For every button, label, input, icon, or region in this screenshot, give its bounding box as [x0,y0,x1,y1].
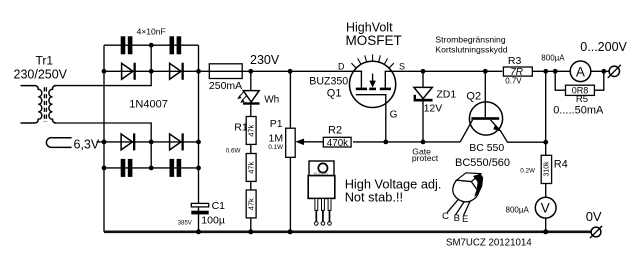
wire voltmeter to bus [545,218,547,232]
node 230V rail dots [248,69,292,74]
svg-text:4×10nF: 4×10nF [137,26,166,36]
svg-text:800µA: 800µA [506,205,530,214]
capacitor Cb (10nF) [170,36,175,54]
Q2 emitter wire to R4 column [501,131,546,142]
svg-text:R1: R1 [234,122,248,134]
svg-text:R4: R4 [554,159,568,171]
svg-text:1N4007: 1N4007 [129,99,168,111]
wire bridge mid column lower [150,142,152,168]
wire secondary bottom to bridge mid column [54,123,151,142]
svg-text:R2: R2 [328,125,342,137]
potentiometer P1 [286,128,296,157]
svg-text:100µ: 100µ [201,215,225,227]
wire right rail of bridge [198,45,200,203]
svg-text:Wh: Wh [264,95,279,106]
Q2 base lead diagonal [460,120,472,142]
wire bridge to fuse and main 230V rail [199,70,362,72]
Q1 internal drain stub [353,71,361,87]
svg-text:47k: 47k [246,198,255,210]
svg-text:0.1W: 0.1W [268,144,283,151]
svg-text:BC 550: BC 550 [469,142,504,154]
diode D1 1N4007 [122,63,133,79]
node dots gate net [383,140,425,145]
Q1 heat tab rays [351,54,393,67]
TO-220 legs [315,198,331,210]
svg-text:230V: 230V [250,53,280,67]
svg-text:SM7UCZ 20121014: SM7UCZ 20121014 [446,237,532,248]
transformer Tr1 primary winding [21,86,42,123]
wire source rail [392,70,502,72]
node dot emitter junction [543,140,548,145]
wire R1b-R1c [250,181,252,190]
TO-220 package tab [309,161,334,176]
svg-text:B: B [454,213,460,224]
svg-text:470k: 470k [327,138,348,149]
wire R1c to bus [250,218,252,232]
wire bridge mid column upper [150,45,152,71]
resistor R1a 47k [246,117,256,145]
wire LED branch [250,71,252,90]
svg-text:D: D [338,62,345,72]
P1 wiper arrow [295,139,304,146]
wire R3 to meter [533,70,571,72]
transformer Tr1 secondary winding [49,86,56,123]
svg-text:P1: P1 [270,118,283,130]
svg-text:250mA: 250mA [209,80,242,92]
svg-text:310k: 310k [544,161,551,177]
resistor R2 470k [323,137,351,147]
zener diode ZD1 [422,71,424,87]
fuse F1 250mA [209,64,242,79]
svg-text:C1: C1 [212,200,226,212]
capacitor C1 electrolytic [191,203,208,207]
capacitor Cd (10nF) [170,159,175,177]
TO-92 package side shade [473,174,483,197]
svg-text:47k: 47k [246,161,255,173]
LED Wh [243,91,259,102]
shunt R5 0R8 [555,71,565,90]
node dots bottom bus [196,229,548,234]
LED arrows [239,92,247,101]
diode D3 1N4007 [121,134,132,150]
svg-text:Strombegränsning: Strombegränsning [435,35,505,45]
TO-220 hole [318,163,327,172]
svg-text:Not stab.!!: Not stab.!! [345,189,403,204]
svg-text:Q2: Q2 [466,90,481,102]
svg-text:E: E [462,214,468,225]
wire lower diode row [104,141,199,143]
resistor R4 310k [541,155,551,183]
TO-92 package BC550 top face [457,173,481,182]
svg-text:6,3V: 6,3V [74,138,100,152]
svg-text:V: V [541,201,550,216]
node dots output rail [543,69,606,74]
wire gate net R2 to Q2 base [353,141,460,143]
wire meter to terminal [591,70,609,72]
svg-text:BC550/560: BC550/560 [455,157,510,169]
TO-220 body [308,176,335,199]
wire R4 column upper [545,71,547,155]
svg-text:Tr1: Tr1 [36,54,54,68]
svg-text:C: C [442,211,449,222]
svg-text:0...200V: 0...200V [580,40,627,54]
svg-text:0.....50mA: 0.....50mA [553,104,604,116]
transformer core [43,87,45,121]
voltmeter V [535,197,556,218]
svg-text:1M: 1M [269,133,284,145]
svg-text:A: A [576,64,585,79]
capacitor Cc (10nF) [121,159,126,177]
wire top capacitor row [104,44,199,46]
svg-text:0.7V: 0.7V [505,77,522,86]
svg-text:0V: 0V [586,209,602,224]
svg-text:BUZ350: BUZ350 [309,76,348,88]
wire left rail of bridge [103,45,105,232]
diode D4 1N4007 [170,134,181,150]
svg-text:385V: 385V [178,220,192,226]
wire lower capacitor row [104,167,199,169]
TO-220 leg pads [315,222,332,226]
svg-text:MOSFET: MOSFET [346,33,402,48]
resistor R1c 47k [246,190,256,218]
wire 6.3V winding to left rail [97,141,105,143]
TO-92 package body [453,180,479,202]
svg-text:12V: 12V [424,102,443,114]
Q2 base bar [471,117,499,120]
resistor R1b 47k [246,154,256,182]
node dots bridge [102,43,201,171]
node dots source rail [421,69,488,74]
wire P1 lower to bus [289,157,291,232]
wire secondary top to bridge mid column [54,71,151,85]
TO-92 legs [447,199,470,216]
svg-text:230/250V: 230/250V [14,68,68,82]
wire P1 branch upper [289,71,291,128]
ammeter A [570,61,591,82]
svg-text:800µA: 800µA [541,53,565,62]
Q2 collector wire [484,71,486,117]
wire wiper to R2 [303,141,324,143]
Q1 internal body arrow [372,74,374,81]
wire R4 to voltmeter [545,184,547,198]
MOSFET Q1 circle [350,61,396,107]
wire LED to R1 [250,105,252,117]
svg-text:Kortslutningsskydd: Kortslutningsskydd [435,44,507,54]
capacitor Ca (10nF) [121,36,126,54]
transistor Q2 circle [469,102,502,135]
resistor R3 7R [503,67,532,76]
svg-text:0.2W: 0.2W [520,167,535,174]
svg-text:ZD1: ZD1 [436,88,456,100]
svg-text:S: S [399,62,405,72]
svg-text:protect: protect [412,153,439,163]
Q1 gate plate and gate lead [356,95,386,142]
Q1 internal source stub [385,71,392,87]
svg-text:R3: R3 [508,55,522,67]
svg-text:47k: 47k [246,124,255,136]
6.3V winding symbol [46,138,71,148]
wire top diode row [104,70,199,72]
output terminal plus [609,66,619,76]
svg-text:Q1: Q1 [327,87,342,99]
svg-text:0.6W: 0.6W [226,147,241,154]
bottom bus wire 0V [104,231,591,234]
Q2 emitter with arrow [491,120,502,132]
diode D2 1N4007 [170,63,181,79]
wire R1a-R1b [250,144,252,153]
terminal 0V [591,227,601,237]
svg-text:G: G [390,110,398,121]
